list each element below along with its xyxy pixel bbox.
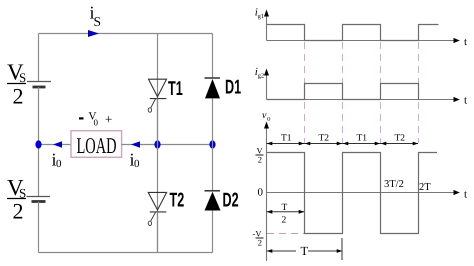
current arrow i_0 left (53, 141, 62, 147)
svg-text:2: 2 (13, 199, 24, 224)
wire bottom rail (39, 252, 213, 254)
svg-text:+: + (105, 112, 112, 127)
waveform ig1 (267, 25, 439, 41)
node A (35, 140, 41, 148)
svg-text:LOAD: LOAD (77, 133, 117, 158)
dashed timing line t=2T (418, 42, 420, 143)
svg-text:g2: g2 (258, 73, 265, 80)
node C (209, 140, 215, 148)
wire D2 branch lower (212, 211, 214, 253)
dimension T1 (0..T/2) (267, 142, 305, 146)
dashed timing line t=3T/2 (380, 42, 382, 143)
svg-text:T2: T2 (170, 190, 185, 212)
dimension T2 (T/2..T) (304, 142, 342, 146)
svg-text:T2: T2 (395, 134, 406, 144)
svg-text:0: 0 (134, 158, 140, 170)
wire D2 branch upper (212, 145, 214, 191)
axis vo (264, 122, 460, 262)
axis ig2 (264, 69, 460, 103)
load box (71, 131, 122, 158)
label -v0+ (79, 111, 112, 128)
svg-text:D2: D2 (223, 190, 239, 212)
current arrow i_S (88, 30, 99, 37)
svg-text:D1: D1 (225, 77, 241, 99)
dimension T (267, 238, 342, 260)
wire left rail lower (38, 202, 40, 253)
wire T1 branch lower (157, 99, 159, 145)
thyristor T1 (148, 79, 166, 112)
wire T2 branch upper (157, 145, 159, 253)
diode D2 (205, 191, 221, 211)
label ig2 (255, 66, 264, 80)
svg-text:T1: T1 (281, 134, 292, 144)
svg-text:o: o (267, 115, 271, 123)
svg-text:t: t (464, 189, 467, 201)
dimension T/2 (267, 203, 305, 226)
dashed timing line t=T/2 (304, 42, 306, 143)
svg-text:S: S (94, 14, 102, 29)
wire top rail (39, 33, 213, 35)
svg-text:t: t (464, 36, 467, 48)
thyristor T2 (148, 192, 166, 225)
svg-text:t: t (464, 95, 467, 107)
battery B2 VS/2 (27, 197, 51, 202)
waveform vo (267, 153, 438, 234)
svg-text:T: T (282, 203, 288, 213)
wire middle right (122, 144, 213, 146)
svg-text:T2: T2 (319, 134, 330, 144)
svg-text:2: 2 (258, 238, 262, 248)
wire left rail upper (38, 34, 40, 82)
dashed -Vs/2 level line (267, 233, 304, 235)
diode D1 (205, 78, 221, 98)
svg-text:T1: T1 (168, 78, 183, 100)
wire left rail middle (38, 87, 40, 197)
svg-text:2: 2 (13, 84, 24, 109)
svg-text:0: 0 (56, 158, 62, 170)
battery B1 VS/2 (27, 82, 51, 88)
wire D1 branch lower (212, 98, 214, 144)
label VS/2 (top) (7, 60, 26, 109)
node B (154, 140, 160, 148)
wire T2 branch lower (157, 212, 159, 253)
dimension T1 (T..3T/2) (342, 142, 380, 146)
dimension T2 (3T/2..2T) (380, 142, 418, 146)
svg-text:2: 2 (282, 215, 287, 225)
svg-text:2T: 2T (419, 182, 431, 193)
wire T1 branch upper (157, 34, 159, 145)
wire middle left (39, 144, 72, 146)
axis ig1 (264, 10, 460, 44)
current arrow i_0 right (131, 141, 140, 147)
label -Vs/2 (-level) (253, 229, 264, 248)
svg-text:0: 0 (94, 118, 99, 128)
label vo (262, 110, 271, 123)
dashed timing line t=T (342, 42, 344, 143)
wire D1 branch upper (212, 34, 214, 79)
svg-text:2: 2 (258, 155, 262, 165)
svg-text:0: 0 (258, 187, 264, 199)
waveform ig2 (267, 84, 419, 100)
svg-text:T: T (301, 244, 309, 258)
svg-text:3T/2: 3T/2 (384, 179, 404, 190)
label Vs/2 (+level) (256, 146, 264, 165)
svg-text:g1: g1 (258, 13, 265, 20)
label ig1 (255, 7, 264, 21)
label VS/2 (bottom) (7, 175, 26, 224)
svg-text:T1: T1 (357, 134, 368, 144)
